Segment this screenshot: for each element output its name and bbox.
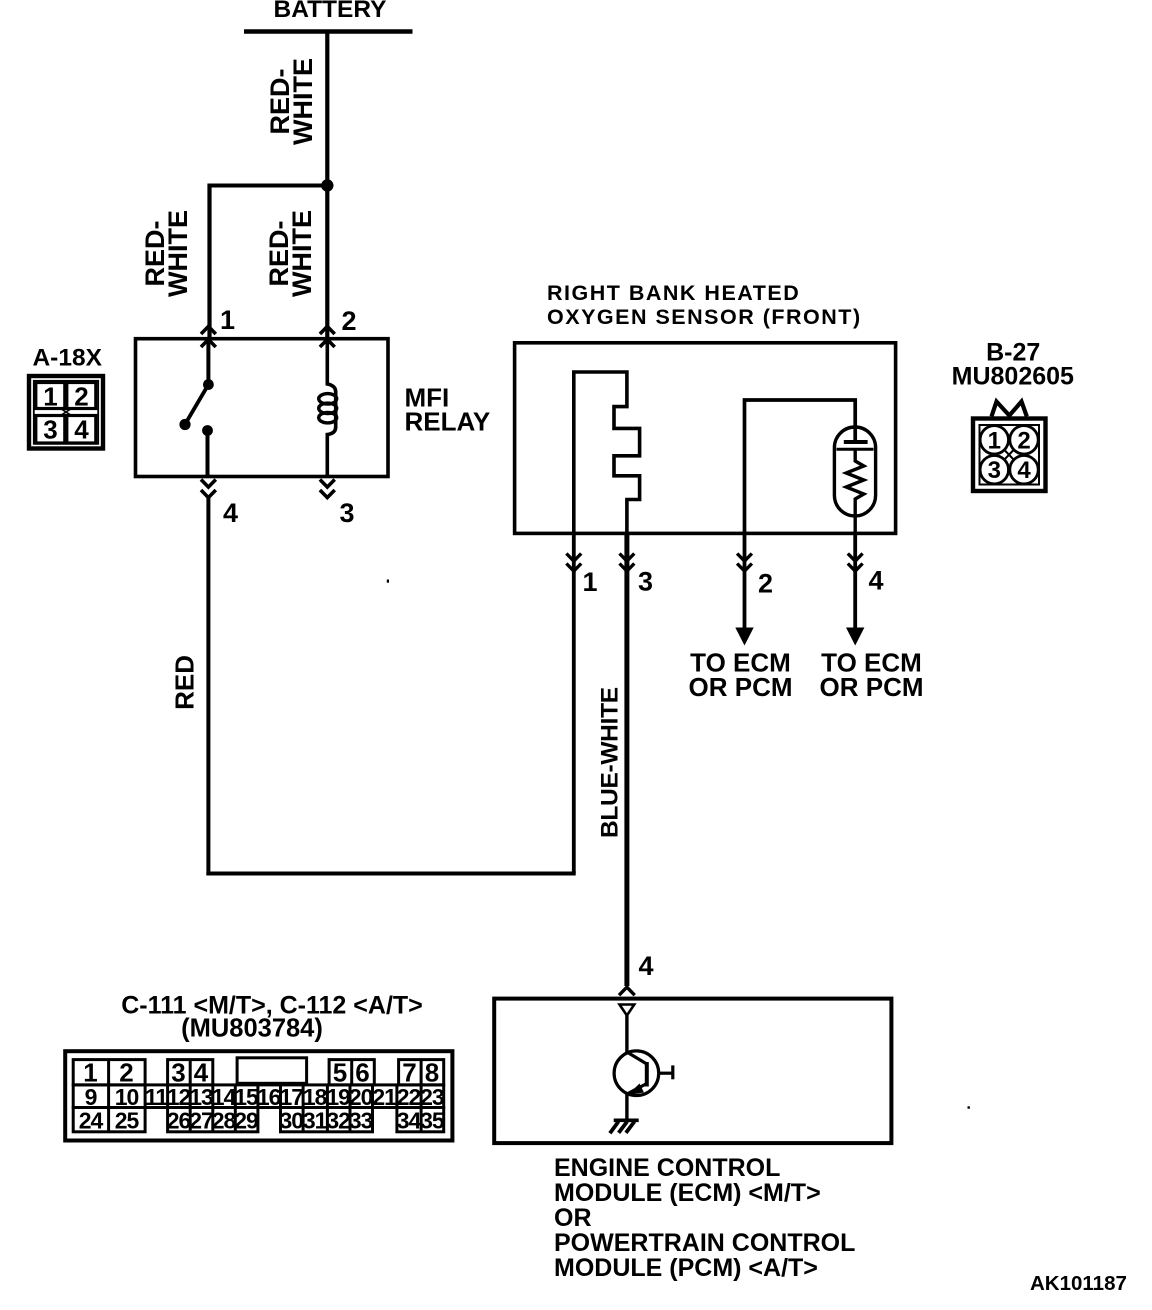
svg-text:OXYGEN SENSOR (FRONT): OXYGEN SENSOR (FRONT) bbox=[547, 305, 862, 329]
svg-text:35: 35 bbox=[420, 1108, 445, 1134]
svg-text:A-18X: A-18X bbox=[32, 345, 102, 372]
connector chevrons relay pin 3 bbox=[320, 480, 335, 498]
svg-text:WHITE: WHITE bbox=[163, 210, 193, 297]
svg-text:1: 1 bbox=[43, 382, 57, 412]
scan speck right of ECM bbox=[968, 1106, 970, 1108]
connector chevrons sensor pin 3 bbox=[620, 554, 635, 572]
wire sensor pin 3 down to ECM (BLUE-WHITE) bbox=[624, 533, 629, 986]
sensor cell top wire bbox=[745, 400, 856, 533]
wire RED horizontal run bbox=[206, 872, 575, 876]
svg-text:4: 4 bbox=[638, 951, 653, 981]
row3 cell pair 24-25 bbox=[73, 1108, 145, 1132]
connector chevrons sensor pin 1 bbox=[566, 554, 581, 572]
connector B-27 key bbox=[992, 402, 1027, 417]
ECM pin triangle bbox=[620, 1005, 635, 1016]
relay coil loop 1 bbox=[319, 394, 337, 404]
connector chevron at ECM pin 4 bbox=[619, 987, 635, 995]
svg-text:31: 31 bbox=[303, 1108, 328, 1134]
svg-text:15: 15 bbox=[234, 1084, 259, 1110]
ground symbol bbox=[610, 1120, 639, 1133]
svg-text:3: 3 bbox=[988, 457, 1001, 484]
row1 cell pair 3-4 bbox=[168, 1060, 213, 1085]
wire relay pin 4 down bbox=[206, 498, 210, 876]
connector chevrons sensor pin 4 bbox=[848, 554, 863, 572]
relay coil right side bbox=[334, 391, 338, 428]
svg-text:28: 28 bbox=[212, 1108, 237, 1134]
svg-text:1: 1 bbox=[582, 567, 597, 597]
relay switch lower contact bbox=[202, 425, 213, 436]
svg-text:13: 13 bbox=[189, 1084, 213, 1110]
connector chevrons sensor pin 2 bbox=[737, 554, 752, 572]
svg-text:MU802605: MU802605 bbox=[952, 362, 1074, 390]
relay coil loop 3 bbox=[319, 413, 337, 423]
svg-text:RED: RED bbox=[170, 655, 200, 710]
MFI relay box bbox=[136, 339, 389, 477]
wire junction down to relay pin 2 bbox=[325, 186, 329, 339]
svg-text:2: 2 bbox=[758, 569, 773, 599]
connector chevrons relay pin 1 bbox=[201, 326, 216, 347]
sensor resistor bbox=[846, 449, 864, 533]
svg-text:3: 3 bbox=[43, 415, 57, 445]
relay switch arm bbox=[186, 385, 209, 424]
connector B-27 icon bbox=[973, 419, 1046, 492]
wire label RED bbox=[170, 655, 200, 710]
svg-text:3: 3 bbox=[339, 498, 354, 528]
connector A-18X icon bbox=[29, 376, 103, 449]
svg-text:AK101187: AK101187 bbox=[1030, 1272, 1127, 1295]
svg-text:2: 2 bbox=[1017, 427, 1030, 454]
wire switch to relay pin 4 bbox=[206, 431, 210, 477]
wire left branch down to relay pin 1 bbox=[207, 184, 211, 339]
svg-text:OR: OR bbox=[554, 1204, 592, 1232]
svg-text:29: 29 bbox=[234, 1108, 258, 1134]
connector C-111 grid numbers bbox=[83, 1058, 439, 1088]
svg-text:10: 10 bbox=[115, 1084, 139, 1110]
row3 cells 30-33 bbox=[281, 1108, 373, 1132]
svg-text:21: 21 bbox=[372, 1084, 397, 1110]
wire transistor emitter to ground bbox=[625, 1093, 628, 1121]
svg-text:4: 4 bbox=[223, 498, 238, 528]
svg-text:12: 12 bbox=[167, 1084, 191, 1110]
wire battery to junction bbox=[325, 32, 329, 187]
svg-text:22: 22 bbox=[397, 1084, 421, 1110]
svg-text:WHITE: WHITE bbox=[287, 210, 317, 297]
svg-text:4: 4 bbox=[74, 415, 89, 445]
wire triangle to transistor bbox=[625, 1016, 628, 1054]
svg-text:MODULE (PCM) <A/T>: MODULE (PCM) <A/T> bbox=[554, 1254, 818, 1282]
svg-text:POWERTRAIN CONTROL: POWERTRAIN CONTROL bbox=[554, 1229, 855, 1257]
svg-text:4: 4 bbox=[1017, 457, 1031, 484]
connector chevrons relay pin 2 bbox=[320, 326, 335, 347]
row2 strip cells 9-23 bbox=[73, 1085, 444, 1108]
svg-text:BLUE-WHITE: BLUE-WHITE bbox=[596, 687, 623, 838]
svg-text:OR PCM: OR PCM bbox=[820, 672, 924, 702]
svg-text:23: 23 bbox=[420, 1084, 444, 1110]
svg-text:16: 16 bbox=[257, 1084, 281, 1110]
row3 cells 26-29 bbox=[168, 1108, 258, 1132]
relay switch arm end dot bbox=[179, 419, 190, 430]
svg-text:34: 34 bbox=[397, 1108, 422, 1134]
svg-text:27: 27 bbox=[189, 1108, 213, 1134]
svg-text:11: 11 bbox=[145, 1084, 169, 1110]
svg-text:WHITE: WHITE bbox=[288, 58, 318, 145]
oxygen sensor box bbox=[515, 343, 896, 534]
sensor capsule bbox=[834, 427, 875, 516]
relay coil wire upper bbox=[327, 339, 335, 392]
svg-text:25: 25 bbox=[115, 1108, 140, 1134]
svg-text:RELAY: RELAY bbox=[405, 407, 491, 437]
sensor electrode bar bbox=[844, 440, 868, 444]
transistor Q (ECM output) bbox=[614, 1051, 673, 1096]
svg-text:MODULE (ECM) <M/T>: MODULE (ECM) <M/T> bbox=[554, 1179, 821, 1207]
relay switch upper contact bbox=[203, 379, 214, 390]
svg-text:3: 3 bbox=[638, 567, 653, 597]
connector C-111 grid bbox=[65, 1051, 452, 1140]
svg-text:2: 2 bbox=[341, 306, 356, 336]
svg-text:32: 32 bbox=[326, 1108, 350, 1134]
svg-text:1: 1 bbox=[220, 305, 235, 335]
svg-text:OR PCM: OR PCM bbox=[689, 672, 793, 702]
svg-text:19: 19 bbox=[326, 1084, 350, 1110]
svg-text:17: 17 bbox=[280, 1084, 304, 1110]
sensor divider bar bbox=[837, 448, 874, 451]
svg-text:18: 18 bbox=[303, 1084, 328, 1110]
svg-text:RIGHT BANK HEATED: RIGHT BANK HEATED bbox=[547, 281, 800, 305]
svg-text:4: 4 bbox=[868, 566, 883, 596]
svg-text:30: 30 bbox=[280, 1108, 304, 1134]
relay coil loop 2 bbox=[319, 403, 337, 413]
svg-text:20: 20 bbox=[349, 1084, 373, 1110]
heater element bbox=[574, 372, 640, 533]
wire sensor pin 1 down bbox=[572, 533, 576, 873]
svg-text:BATTERY: BATTERY bbox=[274, 0, 387, 23]
ECM box bbox=[494, 999, 891, 1144]
svg-text:26: 26 bbox=[167, 1108, 191, 1134]
row1 cell pair 5-6 bbox=[329, 1060, 374, 1085]
svg-text:24: 24 bbox=[79, 1108, 104, 1134]
wire relay pin 1 into switch bbox=[206, 339, 210, 385]
relay coil wire lower bbox=[327, 427, 335, 477]
wire junction to left branch bbox=[208, 184, 328, 188]
svg-text:14: 14 bbox=[212, 1084, 237, 1110]
wire sensor pin 2 to ECM arrow bbox=[743, 533, 747, 630]
row1 cell pair 7-8 bbox=[399, 1060, 444, 1085]
battery bus bar bbox=[244, 29, 413, 34]
row3 cell pair 34-35 bbox=[397, 1108, 444, 1132]
svg-text:33: 33 bbox=[349, 1108, 373, 1134]
wire label RED-WHITE (left branch) bbox=[140, 210, 193, 297]
wire label RED-WHITE (right branch) bbox=[264, 210, 317, 297]
svg-text:1: 1 bbox=[988, 427, 1001, 454]
svg-text:(MU803784): (MU803784) bbox=[181, 1015, 323, 1043]
row1 cell pair 1-2 bbox=[73, 1060, 145, 1085]
row1 blank key cell bbox=[237, 1058, 307, 1084]
svg-text:9: 9 bbox=[85, 1084, 97, 1110]
connector chevrons relay pin 4 bbox=[201, 480, 216, 498]
wire label RED-WHITE (battery feed) bbox=[265, 58, 318, 145]
svg-text:2: 2 bbox=[74, 382, 88, 412]
wire label BLUE-WHITE bbox=[596, 687, 623, 838]
svg-text:ENGINE CONTROL: ENGINE CONTROL bbox=[554, 1154, 780, 1182]
junction node bbox=[321, 179, 333, 191]
scan speck near node 3 bbox=[387, 580, 389, 583]
wire sensor pin 4 to ECM arrow bbox=[853, 533, 857, 630]
